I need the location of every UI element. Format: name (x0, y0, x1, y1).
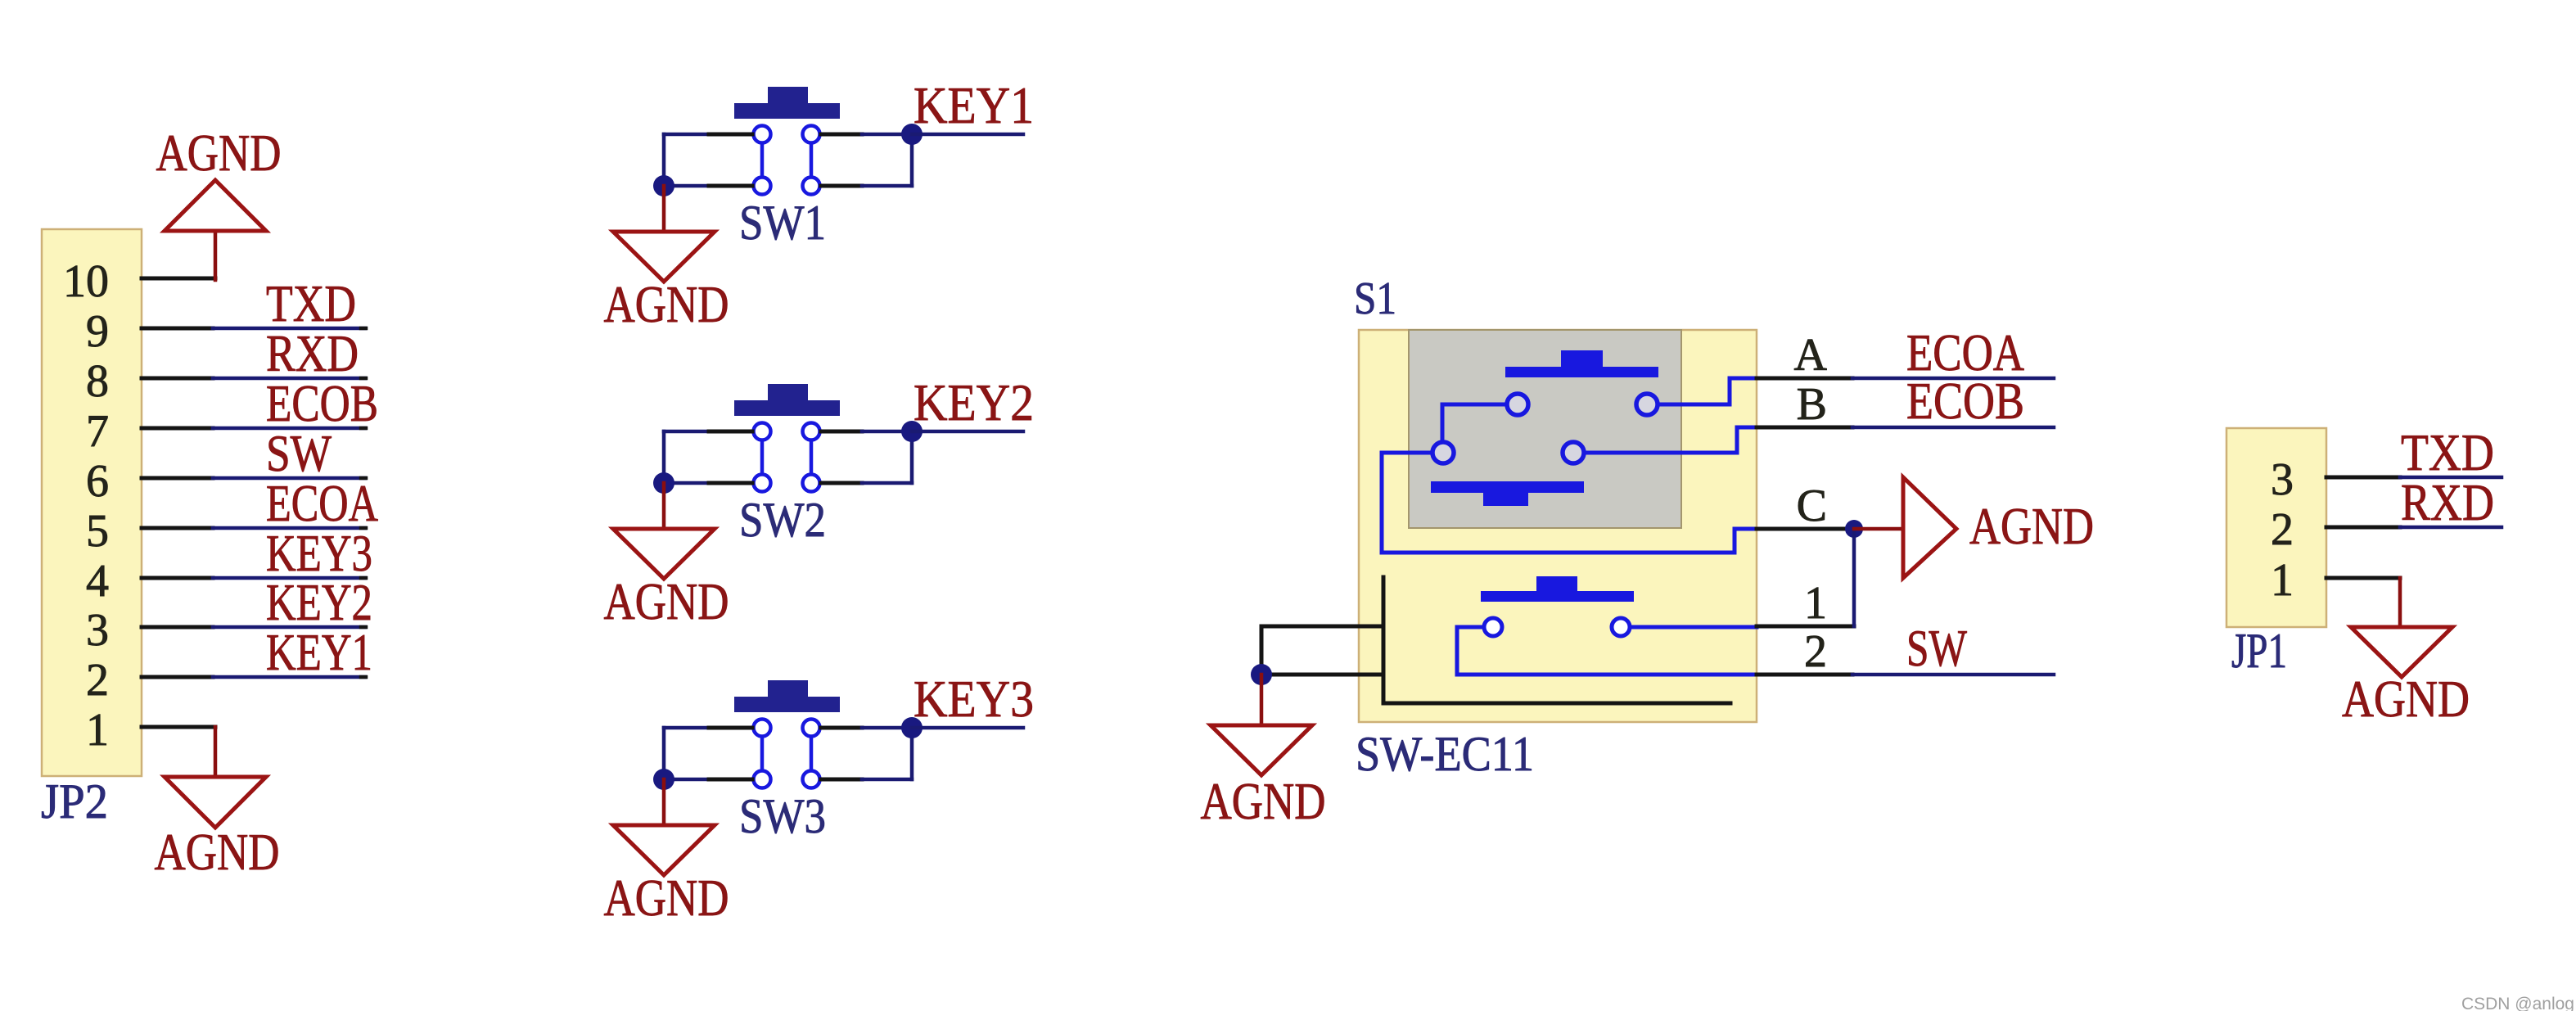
net label RXD at JP1 (2401, 474, 2494, 531)
svg-text:1: 1 (1804, 578, 1827, 629)
SW1 top rail wire (664, 133, 912, 137)
net label KEY3 at JP2 (266, 525, 372, 582)
net KEY3 wire at JP2 (213, 576, 366, 580)
encoder switch circles (1484, 618, 1630, 636)
svg-text:KEY3: KEY3 (914, 670, 1034, 728)
net label KEY3 (914, 670, 1034, 728)
svg-text:JP1: JP1 (2231, 624, 2287, 678)
net label SW at JP2 (266, 425, 332, 482)
svg-text:KEY2: KEY2 (266, 574, 372, 631)
encoder switch wire to pin 2 (1457, 627, 1757, 675)
net ECOA wire (1852, 377, 2054, 381)
JP2 pin 2 number (86, 655, 109, 706)
net KEY3 wire (912, 726, 1023, 730)
net label ECOB at JP2 (266, 375, 378, 432)
SW1 contact circles and stems (754, 126, 820, 195)
encoder rotary section gray box (1409, 330, 1681, 528)
net ECOB wire (1852, 426, 2054, 430)
JP2 pin 10 number (63, 256, 109, 307)
ground AGND at SW1 (604, 186, 729, 333)
rotary encoder S1 body (1359, 330, 1757, 722)
ground AGND at S1 case (1201, 675, 1326, 830)
svg-text:3: 3 (86, 605, 109, 656)
ground AGND at SW2 (604, 483, 729, 630)
JP2 pin 10 wire (142, 277, 215, 281)
net RXD wire at JP1 (2400, 526, 2502, 530)
svg-text:KEY1: KEY1 (914, 77, 1034, 134)
svg-text:AGND: AGND (604, 276, 729, 333)
svg-text:A: A (1794, 330, 1828, 381)
svg-text:2: 2 (1804, 626, 1827, 677)
net label KEY2 at JP2 (266, 574, 372, 631)
JP2 pin 6 number (86, 456, 109, 507)
S1 pin C wire (1757, 527, 1854, 531)
ground AGND at JP1 (2342, 578, 2470, 728)
svg-text:1: 1 (86, 705, 109, 756)
net KEY2 wire (912, 430, 1023, 434)
pushbutton switch SW1 cap (734, 87, 840, 119)
encoder wire to pin C (1382, 453, 1757, 553)
svg-text:TXD: TXD (266, 275, 356, 332)
SW2 bottom rail wire (664, 481, 912, 485)
svg-text:SW-EC11: SW-EC11 (1356, 727, 1534, 781)
svg-text:AGND: AGND (604, 869, 729, 927)
SW2 left vertical wire (662, 431, 666, 483)
net SW wire (1852, 673, 2054, 677)
net label KEY1 at JP2 (266, 624, 372, 681)
ground AGND at SW3 (604, 779, 729, 927)
net SW wire at JP2 (213, 476, 366, 481)
net label RXD at JP2 (266, 325, 359, 382)
encoder wire to pin B (1584, 427, 1757, 453)
S1 pin 1 wire (1757, 625, 1854, 629)
designator SW1 (739, 196, 826, 250)
JP2 pin 9 number (86, 306, 109, 357)
JP2 pin 2 wire (142, 675, 213, 679)
JP2 pin 3 number (86, 605, 109, 656)
svg-text:AGND: AGND (1201, 773, 1326, 830)
designator SW3 (739, 789, 826, 843)
JP2 pin 8 number (86, 356, 109, 407)
SW2 top rail wire (664, 430, 912, 434)
encoder bottom cap (1431, 481, 1584, 506)
designator JP2 (41, 774, 108, 828)
AGND power symbol at pin C (1854, 477, 2094, 578)
JP1 pin 3 number (2271, 454, 2294, 505)
JP1 pin 2 number (2271, 504, 2294, 555)
SW2 right vertical wire (910, 431, 914, 483)
svg-text:AGND: AGND (155, 824, 280, 881)
SW1 left vertical wire (662, 134, 666, 186)
JP2 pin 4 number (86, 556, 109, 607)
junction node at SW3 ground side (653, 769, 674, 790)
svg-text:SW: SW (1906, 620, 1967, 677)
svg-text:4: 4 (86, 556, 109, 607)
S1 pin A wire (1757, 377, 1852, 381)
svg-text:2: 2 (2271, 504, 2294, 555)
svg-text:SW: SW (266, 425, 332, 482)
net label ECOA at JP2 (266, 475, 378, 532)
svg-text:B: B (1797, 379, 1827, 430)
JP2 pin 1 number (86, 705, 109, 756)
encoder case strap (black) (1383, 577, 1730, 703)
net KEY1 wire (912, 133, 1023, 137)
net label SW (1906, 620, 1967, 677)
net TXD wire at JP1 (2400, 476, 2502, 480)
designator JP1 (2231, 624, 2287, 678)
net KEY2 wire at JP2 (213, 625, 366, 630)
wire pin C to pin 1 (1852, 529, 1856, 626)
svg-text:SW2: SW2 (739, 493, 826, 547)
svg-text:8: 8 (86, 356, 109, 407)
svg-text:10: 10 (63, 256, 109, 307)
JP2 pin 6 wire (142, 476, 213, 481)
svg-text:S1: S1 (1354, 273, 1396, 324)
pushbutton switch SW2 cap (734, 384, 840, 416)
SW3 left vertical wire (662, 728, 666, 779)
S1 pin B label (1797, 379, 1827, 430)
S1 pin B wire (1757, 426, 1852, 430)
svg-text:AGND: AGND (2342, 670, 2470, 728)
S1 pin A label (1794, 330, 1828, 381)
net KEY1 wire at JP2 (213, 675, 366, 679)
svg-text:C: C (1797, 481, 1827, 531)
designator value SW-EC11 (1356, 727, 1534, 781)
encoder case pin wires to ground (1261, 626, 1383, 675)
S1 pin 2 wire (1757, 673, 1852, 677)
svg-text:ECOB: ECOB (1906, 372, 2024, 430)
JP2 pin 7 wire (142, 427, 213, 431)
watermark (2461, 995, 2574, 1011)
encoder wire left corner (1442, 404, 1507, 440)
encoder contact circles (1432, 394, 1658, 463)
junction node at SW1 ground side (653, 175, 674, 196)
net label ECOA (1906, 324, 2024, 381)
JP2 pin 5 wire (142, 526, 213, 530)
AGND power symbol (top of JP2) (156, 124, 282, 280)
net ECOA wire at JP2 (213, 526, 366, 530)
net label KEY1 (914, 77, 1034, 134)
svg-text:7: 7 (86, 406, 109, 457)
SW3 contact circles and stems (754, 720, 820, 788)
junction node at S1 case ground (1251, 664, 1272, 685)
svg-text:RXD: RXD (2401, 474, 2494, 531)
JP2 pin 5 number (86, 506, 109, 557)
svg-text:5: 5 (86, 506, 109, 557)
net label TXD at JP2 (266, 275, 356, 332)
JP2 pin 3 wire (142, 625, 213, 630)
connector JP1 body (2226, 428, 2326, 627)
net RXD wire at JP2 (213, 377, 366, 381)
svg-text:JP2: JP2 (41, 774, 108, 828)
S1 pin 1 label (1804, 578, 1827, 629)
junction node at SW2 ground side (653, 472, 674, 494)
SW3 top rail wire (664, 726, 912, 730)
svg-text:1: 1 (2271, 555, 2294, 606)
svg-text:RXD: RXD (266, 325, 359, 382)
JP2 pin 8 wire (142, 377, 213, 381)
svg-text:2: 2 (86, 655, 109, 706)
svg-text:CSDN @anlog: CSDN @anlog (2461, 995, 2574, 1011)
junction node at pin C (1845, 520, 1863, 538)
junction node at SW2 output (901, 421, 923, 442)
svg-text:AGND: AGND (604, 573, 729, 630)
junction node at SW1 output (901, 124, 923, 145)
JP2 pin 9 wire (142, 327, 213, 331)
connector JP2 body (42, 229, 142, 776)
S1 pin C label (1797, 481, 1827, 531)
JP1 pin 1 wire (2326, 576, 2400, 580)
JP2 pin 1 wire (142, 725, 215, 729)
net label ECOB (1906, 372, 2024, 430)
svg-text:TXD: TXD (2401, 424, 2494, 481)
svg-text:SW3: SW3 (739, 789, 826, 843)
JP1 pin 2 wire (2326, 526, 2400, 530)
encoder switch cap (1481, 576, 1634, 602)
designator SW2 (739, 493, 826, 547)
svg-text:9: 9 (86, 306, 109, 357)
encoder switch wire to pin 1 (1631, 625, 1757, 630)
SW2 contact circles and stems (754, 423, 820, 492)
svg-text:6: 6 (86, 456, 109, 507)
svg-text:AGND: AGND (1969, 498, 2094, 555)
svg-text:KEY1: KEY1 (266, 624, 372, 681)
JP2 pin 4 wire (142, 576, 213, 580)
S1 pin 2 label (1804, 626, 1827, 677)
JP1 pin 1 number (2271, 555, 2294, 606)
net label KEY2 (914, 374, 1034, 431)
encoder wire to pin A (1658, 378, 1757, 404)
SW3 right vertical wire (910, 728, 914, 779)
encoder top cap (1505, 350, 1658, 377)
svg-text:KEY2: KEY2 (914, 374, 1034, 431)
net ECOB wire at JP2 (213, 427, 366, 431)
SW3 bottom rail wire (664, 778, 912, 782)
svg-text:ECOB: ECOB (266, 375, 378, 432)
svg-text:3: 3 (2271, 454, 2294, 505)
net label TXD at JP1 (2401, 424, 2494, 481)
SW1 right vertical wire (910, 134, 914, 186)
designator S1 (1354, 273, 1396, 324)
ground AGND (bottom of JP2) (155, 727, 280, 881)
pushbutton switch SW3 cap (734, 680, 840, 712)
svg-text:ECOA: ECOA (266, 475, 378, 532)
SW1 bottom rail wire (664, 184, 912, 188)
JP1 pin 3 wire (2326, 476, 2400, 480)
svg-text:AGND: AGND (156, 124, 282, 182)
junction node at SW3 output (901, 717, 923, 738)
net TXD wire at JP2 (213, 327, 366, 331)
svg-text:SW1: SW1 (739, 196, 826, 250)
JP2 pin 7 number (86, 406, 109, 457)
